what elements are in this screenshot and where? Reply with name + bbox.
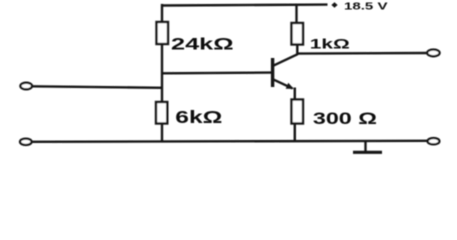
svg-text:1kΩ: 1kΩ <box>310 36 350 52</box>
svg-text:300 Ω: 300 Ω <box>313 110 377 128</box>
svg-text:6kΩ: 6kΩ <box>175 107 222 127</box>
svg-text:24kΩ: 24kΩ <box>171 36 234 54</box>
svg-text:18.5 V: 18.5 V <box>344 0 388 12</box>
